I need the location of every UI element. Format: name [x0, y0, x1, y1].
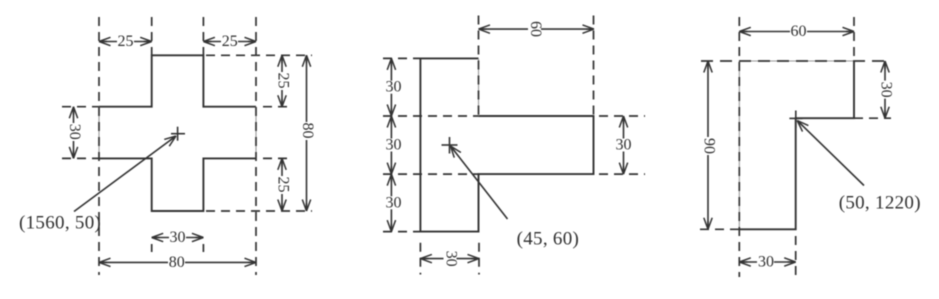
figure 3 extension line vertical below (x=739.3) handled, (x=794) below — [795, 236, 797, 277]
label 25 fig1 top-right — [221, 33, 238, 50]
figure 1 cross-shape outline lower — [99, 158, 256, 211]
figure 2 dimension 30 left middle — [390, 116, 392, 174]
svg-text:25: 25 — [274, 177, 291, 193]
figure 1 leader line to (1560, 50) — [74, 136, 176, 212]
figure 3 L-shape outline solid part — [739, 61, 854, 229]
figure 1 extension line horizontal right top (y=55.3) — [206, 54, 312, 56]
label 90 fig3 left (rotated) — [700, 137, 717, 155]
label 30 fig3 right (rotated) — [877, 81, 894, 99]
figure 1 extension line horizontal right (y=158.4) — [263, 157, 292, 159]
svg-text:(50, 1220): (50, 1220) — [839, 193, 921, 214]
figure 2 extension line horizontal bottom-left (y=231.6) — [383, 231, 420, 233]
svg-text:30: 30 — [386, 194, 402, 211]
figure 2 shape outline — [420, 58, 593, 231]
label (45, 60) fig2 — [517, 229, 580, 250]
svg-text:25: 25 — [222, 33, 238, 50]
label 60 fig2 top (rotated) — [527, 20, 544, 38]
figure 1 dimension 25 top-left — [99, 41, 152, 43]
figure 2 dimension 30 right — [623, 116, 625, 174]
svg-text:90: 90 — [700, 138, 717, 154]
figure 2 extension line vertical (x=593.5) top — [593, 16, 595, 116]
svg-text:30: 30 — [616, 137, 632, 154]
svg-text:25: 25 — [118, 33, 134, 50]
label 60 fig3 top — [790, 23, 807, 40]
figure 3 dimension 30 bottom — [739, 261, 795, 263]
figure 3 faint left edge — [738, 61, 740, 229]
figure 2 extension line horizontal right (y=174.1) — [599, 173, 645, 175]
figure 1 extension line vertical (x=151.7) upper — [151, 17, 153, 55]
figure 1 extension line horizontal right (y=106.7) — [263, 106, 292, 108]
figure 3 extension line vertical right (x=852.5) top — [853, 17, 855, 61]
figure 1 faint right cap — [255, 107, 257, 159]
label 30 fig1 bottom — [169, 229, 186, 246]
svg-text:(1560, 50): (1560, 50) — [19, 213, 101, 234]
label 30 fig1 left (rotated) — [66, 123, 83, 141]
svg-text:80: 80 — [169, 254, 185, 271]
figure 1 dimension 25 top-right — [203, 41, 256, 43]
figure 2 extension line vertical below (x=479) — [478, 243, 480, 275]
figure 2 extension line horizontal top-left (y=58.4) — [383, 57, 420, 59]
svg-text:30: 30 — [386, 137, 402, 154]
figure 1 extension line horizontal left upper (y=106.7) — [62, 106, 99, 108]
figure 1 extension line vertical left (x=99) — [98, 17, 100, 275]
svg-text:60: 60 — [527, 21, 544, 37]
figure 1 extension line horizontal right bottom (y=211) — [206, 210, 312, 212]
label 30 fig2 left upper — [385, 79, 402, 96]
figure 3 dimension 90 left — [707, 61, 709, 229]
label (1560, 50) fig1 — [19, 213, 101, 234]
figure 2 dimension 30 left lower — [390, 174, 392, 232]
label 30 fig2 bottom (rotated) — [442, 250, 459, 268]
label 80 fig1 bottom — [168, 254, 185, 271]
figure 3 corner mark — [789, 111, 802, 129]
figure 2 hidden line (y=174.1 inside bar) — [383, 173, 479, 175]
figure 1 extension line vertical (x=203.4) upper — [202, 17, 204, 55]
svg-text:60: 60 — [791, 23, 807, 40]
figure 2 faint vertical (x=478.5 upper) — [478, 58, 480, 116]
figure 1 dimension 80 right — [306, 55, 308, 211]
svg-text:30: 30 — [442, 251, 459, 267]
svg-text:80: 80 — [299, 123, 316, 139]
label 25 fig1 top-left — [117, 33, 134, 50]
svg-text:30: 30 — [386, 79, 402, 96]
figure 1 dimension 25 right-top — [281, 55, 283, 106]
figure 1 extension line horizontal left lower (y=158.4) — [62, 157, 99, 159]
figure 2 dimension 60 top — [479, 28, 595, 30]
label (50, 1220) fig3 — [839, 193, 921, 214]
figure 1 center mark — [171, 127, 185, 141]
label 30 fig2 left lower — [385, 194, 402, 211]
figure 3 extension line vertical left (x=739.3) — [738, 17, 740, 277]
figure 3 faint top edge — [739, 60, 854, 62]
figure 1 dimension 30 left — [73, 107, 75, 159]
figure 2 extension line horizontal right (y=116) — [599, 115, 645, 117]
figure 1 extension line vertical right (x=256) — [255, 17, 257, 275]
figure 2 extension line vertical (x=478.5) top — [478, 16, 480, 117]
label 30 fig3 bottom — [757, 254, 774, 271]
figure 1 extension line vertical (x=151.7) lower — [151, 244, 153, 252]
figure 1 dimension 80 bottom — [99, 261, 256, 263]
figure 1 faint left cap — [98, 107, 100, 159]
svg-text:30: 30 — [758, 254, 774, 271]
svg-text:(45, 60): (45, 60) — [517, 229, 580, 250]
figure 2 leader line to (45, 60) — [451, 146, 508, 219]
label 80 fig1 right (rotated) — [299, 122, 316, 140]
figure 1 dimension 25 right-bottom — [281, 158, 283, 211]
figure 3 dimension 30 right — [884, 61, 886, 118]
figure 2 hidden line (y=116 inside bar) — [383, 115, 479, 117]
figure 1 extension line vertical (x=203.4) lower — [202, 244, 204, 252]
figure 2 dimension 30 bottom — [420, 258, 479, 260]
figure 3 dimension 60 top — [739, 31, 854, 33]
figure 3 extension line horizontal bottom (y=229) — [700, 228, 739, 230]
figure 1 cross-shape outline upper — [99, 55, 256, 106]
svg-text:30: 30 — [170, 229, 186, 246]
label 30 fig2 right — [615, 137, 632, 154]
figure 3 extension line horizontal right (y=117.3) — [854, 117, 891, 119]
svg-text:30: 30 — [877, 82, 894, 98]
figure 3 extension line horizontal top (y=61) — [701, 60, 891, 62]
figure 3 leader line to (50, 1220) — [797, 121, 864, 186]
label 25 fig1 right-bottom (rotated) — [274, 176, 291, 194]
figure 1 dimension 30 bottom — [152, 237, 204, 239]
svg-text:25: 25 — [274, 73, 291, 89]
figure 2 dimension 30 left upper — [390, 58, 392, 116]
svg-text:30: 30 — [66, 124, 83, 140]
label 30 fig2 left middle — [385, 137, 402, 154]
figure 2 extension line vertical below (x=420.4) — [419, 243, 421, 275]
label 25 fig1 right-top (rotated) — [274, 72, 291, 90]
figure 2 center mark — [442, 137, 458, 154]
